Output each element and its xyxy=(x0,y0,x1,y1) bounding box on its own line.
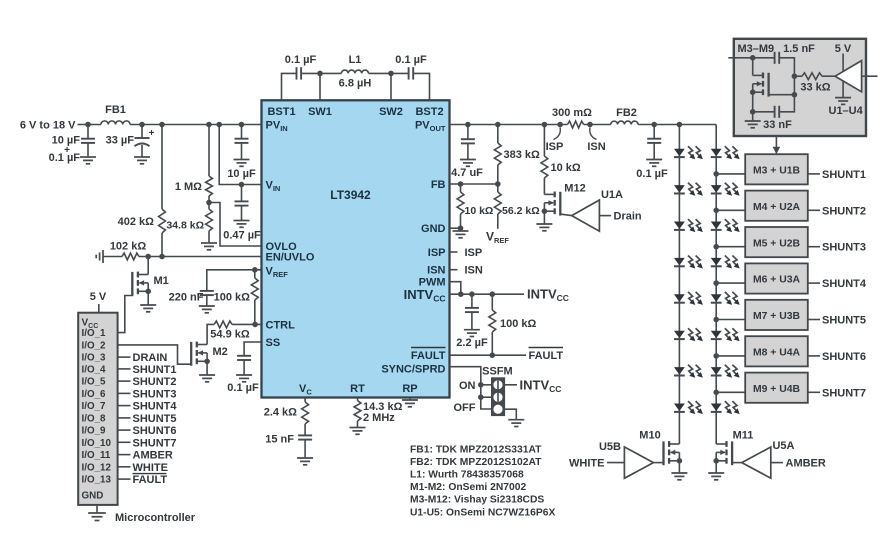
shunt box M5 + U2B xyxy=(745,227,808,257)
wire PWM jog xyxy=(450,282,461,295)
wire SHUNT4 xyxy=(808,278,867,290)
IC pin labels xyxy=(266,106,446,397)
node FAULT junction xyxy=(490,352,496,358)
wire VREF line xyxy=(207,270,262,291)
LED white string diodes xyxy=(674,146,703,414)
capacitor 2.2uF xyxy=(456,294,488,349)
node M1-drain junction xyxy=(145,254,151,260)
capacitor 4.7uF xyxy=(451,125,483,180)
svg-text:1.5 nF: 1.5 nF xyxy=(783,43,815,55)
svg-text:100 kΩ: 100 kΩ xyxy=(214,292,251,304)
svg-text:U1A: U1A xyxy=(601,189,623,201)
svg-text:I/O_5: I/O_5 xyxy=(82,377,107,388)
node label 6V-18V input xyxy=(20,120,82,132)
svg-text:I/O_4: I/O_4 xyxy=(82,364,107,375)
resistor 10k FB xyxy=(457,184,493,228)
wire BST2 riser xyxy=(413,73,429,100)
shunt box M7 + U3B xyxy=(745,300,808,330)
wire box gate link xyxy=(769,76,795,95)
notes parts list xyxy=(410,445,555,519)
ground box xyxy=(745,112,761,128)
wire white string xyxy=(678,125,680,445)
svg-text:SHUNT5: SHUNT5 xyxy=(822,315,866,327)
node 383k junction xyxy=(495,122,501,128)
transistor M11 xyxy=(713,430,753,466)
svg-text:10 kΩ: 10 kΩ xyxy=(551,162,581,174)
svg-text:DRAIN: DRAIN xyxy=(133,352,168,364)
node SW1 top xyxy=(317,71,323,77)
svg-text:ISP: ISP xyxy=(465,247,483,259)
svg-text:L1: Wurth 78438357068: L1: Wurth 78438357068 xyxy=(410,470,524,481)
resistor 402k xyxy=(118,125,166,257)
svg-text:GND: GND xyxy=(82,490,104,501)
arrow box to shunt1 xyxy=(773,136,781,154)
svg-text:0.1 µF: 0.1 µF xyxy=(49,152,81,164)
capacitor 0.1uF SS xyxy=(227,356,259,394)
label SSFM xyxy=(482,366,513,378)
node label FAULT xyxy=(529,348,564,363)
node 10k-M12 junction xyxy=(542,122,548,128)
svg-text:SHUNT3: SHUNT3 xyxy=(822,242,866,254)
svg-text:M1: M1 xyxy=(154,275,169,287)
connector SSFM header xyxy=(492,378,505,416)
svg-text:M8 + U4A: M8 + U4A xyxy=(753,348,801,359)
svg-text:FAULT: FAULT xyxy=(133,474,168,486)
wire cap to SW1 node xyxy=(301,72,341,74)
wire U5A to M11 gate xyxy=(732,462,742,464)
ground M2 source xyxy=(199,361,215,382)
svg-text:M3-M12: Vishay Si2318CDS: M3-M12: Vishay Si2318CDS xyxy=(410,495,544,506)
svg-text:OFF: OFF xyxy=(454,402,476,414)
transistor M12 xyxy=(542,183,586,216)
node label VREF xyxy=(486,230,509,246)
resistor 100k CTRL pullup xyxy=(214,270,259,325)
wire ISP stub xyxy=(450,247,483,259)
resistor 102k xyxy=(110,241,147,260)
wire buffer ground xyxy=(835,81,851,104)
microcontroller pin labels xyxy=(118,352,178,486)
svg-text:I/O_11: I/O_11 xyxy=(82,450,111,461)
svg-text:BST2: BST2 xyxy=(415,106,443,118)
node 0.47uF junction xyxy=(239,182,245,188)
node box drain xyxy=(750,55,756,61)
svg-text:I/O_7: I/O_7 xyxy=(82,401,107,412)
svg-text:SHUNT6: SHUNT6 xyxy=(133,425,177,437)
LED amber string diodes xyxy=(711,146,740,414)
svg-text:FAULT: FAULT xyxy=(411,350,446,362)
ground M11 xyxy=(708,461,724,480)
svg-text:SHUNT6: SHUNT6 xyxy=(822,351,866,363)
resistor 100k FAULT pullup xyxy=(489,294,537,355)
capacitor 0.1uF BST1 xyxy=(285,54,317,80)
resistor 300mohm sense xyxy=(552,107,592,128)
resistor 54.9k xyxy=(210,321,250,341)
inductor L1 xyxy=(339,54,372,90)
wire box output xyxy=(862,75,878,77)
wire M12 gate xyxy=(560,214,571,216)
wire VIN xyxy=(219,125,261,185)
transistor M1 xyxy=(132,257,168,296)
wire 54.9k to M2 drain xyxy=(207,324,214,344)
svg-text:FAULT: FAULT xyxy=(529,350,564,362)
svg-text:1 MΩ: 1 MΩ xyxy=(175,181,202,193)
node SSFM on2 xyxy=(478,394,484,400)
node box gate node xyxy=(792,73,798,79)
wire EN/UVLO line xyxy=(103,256,262,258)
wire FAULT line xyxy=(450,354,527,356)
svg-text:54.9 kΩ: 54.9 kΩ xyxy=(210,329,250,341)
node 1M junction xyxy=(206,122,212,128)
svg-text:M12: M12 xyxy=(564,183,585,195)
svg-text:M10: M10 xyxy=(639,430,660,442)
wire M2 gate to I/O_2 xyxy=(118,345,191,364)
wire 5V into buffer xyxy=(842,54,844,72)
svg-text:0.1 µF: 0.1 µF xyxy=(227,382,259,394)
ground microcontroller xyxy=(88,505,106,521)
svg-text:0.1 µF: 0.1 µF xyxy=(285,54,317,66)
node FB-10k junction xyxy=(458,181,464,187)
node 402k-EN junction xyxy=(159,254,165,260)
svg-text:M1-M2: OnSemi 2N7002: M1-M2: OnSemi 2N7002 xyxy=(410,482,526,493)
wire SS line xyxy=(244,342,261,356)
node 4.7uF junction xyxy=(465,122,471,128)
svg-text:383 kΩ: 383 kΩ xyxy=(504,149,541,161)
svg-text:SHUNT2: SHUNT2 xyxy=(822,205,866,217)
svg-text:I/O_13: I/O_13 xyxy=(82,475,112,486)
wire SW2 riser xyxy=(390,73,392,100)
wire AMBER input xyxy=(771,458,826,470)
svg-text:LT3942: LT3942 xyxy=(330,188,371,202)
resistor 2.4k VC xyxy=(264,398,309,436)
node 100k-VREF junction xyxy=(252,267,258,273)
node 1M-34.8k junction xyxy=(206,200,212,206)
svg-text:SYNC/SPRD: SYNC/SPRD xyxy=(381,364,445,376)
svg-text:I/O_10: I/O_10 xyxy=(82,438,112,449)
svg-text:33 nF: 33 nF xyxy=(763,119,792,131)
svg-text:SHUNT7: SHUNT7 xyxy=(822,387,866,399)
svg-text:300 mΩ: 300 mΩ xyxy=(552,107,592,119)
node GND junction xyxy=(458,225,464,231)
svg-text:Drain: Drain xyxy=(614,211,642,223)
capacitor 10uF/0.1uF input xyxy=(49,125,96,165)
node label INTVCC xyxy=(527,287,569,304)
node ISN tap xyxy=(587,122,593,128)
svg-text:FB1: FB1 xyxy=(105,104,126,116)
svg-text:RP: RP xyxy=(402,383,417,395)
wire ISN stub xyxy=(450,265,483,277)
svg-text:6 V to 18 V: 6 V to 18 V xyxy=(20,120,76,132)
node label INTVCC SSFM xyxy=(520,377,562,394)
svg-text:5 V: 5 V xyxy=(835,43,852,55)
svg-text:SHUNT4: SHUNT4 xyxy=(822,278,867,290)
shunt box M9 + U4B xyxy=(745,373,808,403)
resistor 33k xyxy=(794,73,835,94)
node 402k junction xyxy=(159,122,165,128)
leader ISN xyxy=(587,128,605,154)
svg-text:I/O_1: I/O_1 xyxy=(82,328,107,339)
transistor M10 xyxy=(639,430,682,466)
svg-text:6.8 µH: 6.8 µH xyxy=(339,78,372,90)
wire U5B to M10 gate xyxy=(653,462,663,464)
detail box M3-M9 shunt circuit xyxy=(734,39,866,136)
wire SHUNT2 xyxy=(808,205,866,217)
svg-text:ISN: ISN xyxy=(587,141,605,153)
svg-text:220 nF: 220 nF xyxy=(169,292,204,304)
svg-text:ON: ON xyxy=(459,380,476,392)
svg-text:RT: RT xyxy=(350,383,365,395)
svg-text:FB: FB xyxy=(431,179,446,191)
label 5V box xyxy=(835,43,852,55)
resistor 34.8k xyxy=(166,203,217,250)
wire header ground xyxy=(505,409,525,426)
wire WHITE input xyxy=(569,458,624,470)
wire SHUNT6 xyxy=(808,351,866,363)
svg-text:I/O_6: I/O_6 xyxy=(82,389,107,400)
svg-text:M5 + U2B: M5 + U2B xyxy=(753,238,801,249)
node PWM-INTVCC xyxy=(458,291,464,297)
svg-text:FB2: TDK MPZ2012S102AT: FB2: TDK MPZ2012S102AT xyxy=(410,457,542,468)
wire SW1 riser xyxy=(319,73,321,100)
capacitor 0.1uF BST2 xyxy=(395,54,427,80)
node ISP tap xyxy=(557,122,563,128)
wire M1 gate to I/O_1 xyxy=(118,292,133,333)
svg-text:SHUNT1: SHUNT1 xyxy=(133,364,177,376)
shunt box M6 + U3A xyxy=(745,263,808,293)
node SW2 top xyxy=(388,71,394,77)
ground M10 xyxy=(671,461,687,480)
node CTRL junction xyxy=(252,322,258,328)
label U1-U4 xyxy=(829,105,864,117)
svg-text:34.8 kΩ: 34.8 kΩ xyxy=(166,220,204,232)
svg-text:U1-U5: OnSemi NC7WZ16P6X: U1-U5: OnSemi NC7WZ16P6X xyxy=(410,507,555,518)
node white-string junction xyxy=(677,122,683,128)
svg-text:SHUNT4: SHUNT4 xyxy=(133,401,178,413)
wire SHUNT5 xyxy=(808,315,866,327)
svg-text:AMBER: AMBER xyxy=(786,458,826,470)
wire SHUNT7 xyxy=(808,387,866,399)
svg-text:SHUNT7: SHUNT7 xyxy=(133,437,177,449)
svg-text:10 µF: 10 µF xyxy=(227,168,256,180)
resistor 1M xyxy=(175,125,213,203)
svg-text:0.47 µF: 0.47 µF xyxy=(223,230,261,242)
op-amp U-IC LT3942 body xyxy=(262,100,450,397)
shunt box M3 + U1B xyxy=(745,154,808,184)
svg-text:SHUNT1: SHUNT1 xyxy=(822,169,866,181)
transistor M2 xyxy=(191,342,228,366)
svg-text:0.1 µF: 0.1 µF xyxy=(636,168,668,180)
wire PVIN rail left xyxy=(82,124,101,126)
svg-text:SS: SS xyxy=(266,337,281,349)
capacitor 220nF xyxy=(169,291,215,313)
label M3-M9 xyxy=(738,43,775,55)
wire OVLO link xyxy=(209,203,262,247)
svg-text:FB2: FB2 xyxy=(616,107,637,119)
svg-text:WHITE: WHITE xyxy=(569,458,604,470)
node VIN-drop junction xyxy=(216,122,222,128)
wire GND pin xyxy=(450,227,461,229)
svg-text:10 kΩ: 10 kΩ xyxy=(465,205,494,217)
svg-text:+: + xyxy=(149,128,155,139)
op-amp U1-U4 buffer xyxy=(835,61,862,92)
node box source junction xyxy=(750,109,756,115)
svg-text:M9 + U4B: M9 + U4B xyxy=(753,384,801,395)
svg-text:M4 + U2A: M4 + U2A xyxy=(753,202,801,213)
node input junction xyxy=(85,122,91,128)
svg-text:U5A: U5A xyxy=(772,440,794,452)
svg-text:33 kΩ: 33 kΩ xyxy=(800,82,830,94)
svg-text:5 V: 5 V xyxy=(90,291,107,303)
ground RP xyxy=(402,398,418,407)
transistor M3-M9 representative xyxy=(750,58,769,97)
wire header stubs xyxy=(481,385,492,397)
op-amp U1A buffer xyxy=(572,189,623,231)
svg-text:I/O_3: I/O_3 xyxy=(82,353,107,364)
svg-text:ISP: ISP xyxy=(546,141,564,153)
svg-text:AMBER: AMBER xyxy=(133,450,173,462)
wire SHUNT3 xyxy=(808,242,866,254)
svg-text:SW2: SW2 xyxy=(379,106,403,118)
wire box input stub xyxy=(728,57,752,59)
svg-text:102 kΩ: 102 kΩ xyxy=(110,241,147,253)
svg-text:0.1 µF: 0.1 µF xyxy=(395,54,427,66)
wire CTRL line xyxy=(232,323,261,325)
svg-text:100 kΩ: 100 kΩ xyxy=(500,318,537,330)
svg-text:BST1: BST1 xyxy=(267,106,295,118)
capacitor 10uF VIN xyxy=(227,125,256,181)
ground GND pin xyxy=(453,228,469,238)
node 33uF junction xyxy=(139,122,145,128)
svg-text:ISP: ISP xyxy=(428,247,446,259)
wire L1 to cap xyxy=(369,72,409,74)
node 5V supply xyxy=(90,291,107,313)
svg-text:15 nF: 15 nF xyxy=(265,434,294,446)
capacitor 1.5nF xyxy=(753,52,795,76)
svg-text:U5B: U5B xyxy=(599,441,621,453)
ground M12 xyxy=(536,211,552,231)
label OFF xyxy=(454,402,476,414)
microcontroller box xyxy=(78,313,117,505)
capacitor 33nF xyxy=(753,92,795,131)
svg-text:SHUNT5: SHUNT5 xyxy=(133,413,177,425)
resistor 383k xyxy=(494,125,540,185)
svg-text:M7 + U3B: M7 + U3B xyxy=(753,311,801,322)
node SSFM on1 xyxy=(478,382,484,388)
svg-text:WHITE: WHITE xyxy=(133,462,168,474)
op-amp U5A buffer xyxy=(742,440,795,478)
svg-text:402 kΩ: 402 kΩ xyxy=(118,216,155,228)
resistor 56.2k xyxy=(494,184,539,229)
svg-text:ISN: ISN xyxy=(465,265,483,277)
node 100k junction xyxy=(490,291,496,297)
wire INTVCC line xyxy=(450,293,525,295)
svg-text:EN/UVLO: EN/UVLO xyxy=(266,252,315,264)
svg-text:M2: M2 xyxy=(213,346,228,358)
svg-text:2 MHz: 2 MHz xyxy=(363,412,395,424)
svg-text:2.4 kΩ: 2.4 kΩ xyxy=(264,407,297,419)
svg-text:SSFM: SSFM xyxy=(482,366,513,378)
capacitor 0.1uF out xyxy=(636,125,668,181)
svg-text:GND: GND xyxy=(421,223,446,235)
svg-text:ISN: ISN xyxy=(427,265,445,277)
svg-text:SHUNT3: SHUNT3 xyxy=(133,388,177,400)
node box gate-cap junction xyxy=(792,92,798,98)
svg-text:M11: M11 xyxy=(733,430,754,442)
svg-text:33 µF: 33 µF xyxy=(106,135,135,147)
shunt box M8 + U4A xyxy=(745,336,808,366)
label 1.5nF xyxy=(783,43,815,55)
wire amber string xyxy=(715,125,717,445)
capacitor 15nF xyxy=(265,434,313,465)
ground left wall xyxy=(96,250,103,263)
wires amber taps xyxy=(713,171,745,395)
leader ISP xyxy=(546,128,564,154)
svg-text:I/O_2: I/O_2 xyxy=(82,340,107,351)
svg-text:I/O_8: I/O_8 xyxy=(82,413,107,424)
wire SHUNT1 xyxy=(808,169,866,181)
svg-text:M3 + U1B: M3 + U1B xyxy=(753,166,801,177)
svg-text:U1–U4: U1–U4 xyxy=(829,105,864,117)
node FB-56k junction xyxy=(495,181,501,187)
shunt box M4 + U2A xyxy=(745,191,808,221)
label Microcontroller xyxy=(115,512,196,524)
resistor 10k dim xyxy=(541,125,581,195)
svg-text:2.2 µF: 2.2 µF xyxy=(456,337,488,349)
svg-text:FB1: TDK MPZ2012S331AT: FB1: TDK MPZ2012S331AT xyxy=(410,445,542,456)
node out-cap junction xyxy=(651,122,657,128)
svg-text:M6 + U3A: M6 + U3A xyxy=(753,275,801,286)
label ON xyxy=(459,380,476,392)
node 2.2uF junction xyxy=(469,291,475,297)
wire BST1 riser xyxy=(282,73,297,100)
svg-text:SHUNT2: SHUNT2 xyxy=(133,376,177,388)
svg-text:CTRL: CTRL xyxy=(266,319,296,331)
svg-text:M3–M9: M3–M9 xyxy=(738,43,775,55)
capacitor 0.47uF xyxy=(223,185,261,242)
svg-text:SW1: SW1 xyxy=(308,106,332,118)
svg-text:Microcontroller: Microcontroller xyxy=(115,512,196,524)
ground M1 source xyxy=(140,291,156,312)
svg-text:I/O_9: I/O_9 xyxy=(82,426,107,437)
svg-text:4.7 uF: 4.7 uF xyxy=(451,167,483,179)
wire PVOUT rail xyxy=(450,124,717,126)
ferrite bead FB1 xyxy=(101,104,130,125)
wire PVIN rail mid xyxy=(130,124,262,126)
op-amp U5B buffer xyxy=(599,441,653,478)
wire FB line xyxy=(450,183,498,185)
resistor 14.3k RT xyxy=(350,398,403,435)
capacitor 33uF bulk xyxy=(106,125,155,164)
node 10uF junction xyxy=(239,122,245,128)
svg-text:I/O_12: I/O_12 xyxy=(82,462,112,473)
svg-text:L1: L1 xyxy=(349,54,362,66)
ferrite bead FB2 xyxy=(611,107,638,125)
svg-text:56.2 kΩ: 56.2 kΩ xyxy=(502,205,540,217)
wire SYNC/SPRD xyxy=(450,367,492,409)
wire Drain label xyxy=(599,211,641,223)
wire header INTVCC xyxy=(505,384,517,386)
